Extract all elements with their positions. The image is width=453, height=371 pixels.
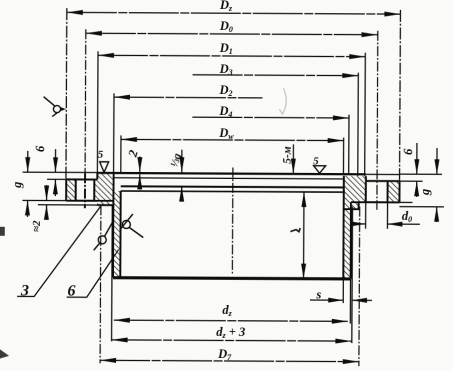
finish circle on bore (left) — [122, 220, 130, 228]
dz+3 dim arrows — [112, 337, 128, 342]
s arrows — [328, 298, 343, 303]
l arrows — [301, 192, 306, 207]
svg-text:5-м: 5-м — [282, 146, 294, 164]
left ring top edge — [96, 172, 98, 179]
approx2 arrows — [44, 186, 49, 201]
right wall edges — [343, 176, 351, 279]
d0 arrows — [351, 221, 366, 226]
D7 dim arrows — [100, 358, 116, 363]
rim top line thin continuation over right flange — [366, 173, 400, 175]
rim line L4 — [121, 191, 344, 192]
D1 left ext — [96, 51, 99, 172]
svg-text:dz: dz — [222, 303, 232, 318]
D1 right ext — [364, 53, 367, 176]
svg-text:D3: D3 — [219, 62, 233, 77]
svg-text:5: 5 — [98, 149, 104, 161]
dz+3 dim line — [112, 340, 352, 341]
6 dim shafts — [54, 149, 56, 196]
right flange outline — [351, 181, 400, 203]
lower solid ext left (dz+3) — [111, 205, 114, 341]
D4 right ext — [348, 115, 350, 174]
D3 dim line — [193, 74, 359, 77]
1/3g dim arrows — [179, 157, 184, 172]
approx2 dim shafts — [45, 185, 47, 220]
right horiz ext step bottom — [399, 206, 443, 208]
svg-text:3: 3 — [20, 282, 29, 299]
left flange plate hatch (outer of bolt hole) — [66, 179, 76, 200]
svg-text:D4: D4 — [218, 104, 232, 119]
left bolt hole edges — [76, 179, 95, 200]
left raised ring hatch — [97, 172, 113, 205]
D3 right ext — [357, 73, 360, 176]
D2 left ext — [113, 93, 115, 172]
right horiz ext rim top — [400, 173, 442, 175]
svg-text:g: g — [10, 182, 24, 189]
d0 dim line — [354, 223, 420, 225]
Dw arrows — [121, 137, 137, 142]
6 arrows — [53, 157, 58, 172]
leader line for item 6 — [67, 249, 119, 297]
wall edge ext below floor right (s) — [343, 279, 350, 324]
D4 dim line — [192, 116, 349, 119]
g dim shafts — [26, 151, 28, 217]
D0 dim line — [86, 33, 378, 35]
left horiz ext seat — [47, 178, 76, 180]
5mm arrow — [291, 159, 296, 174]
rim mid partial line segments — [114, 178, 344, 179]
2 dim shaft — [139, 157, 141, 190]
rim line L3 — [121, 186, 344, 187]
right lower dash-dot extension (D7) — [358, 207, 361, 366]
rim top line 1 — [97, 173, 365, 174]
d0 ext lines below flange — [366, 202, 388, 229]
lower solid ext right (dz+3) — [351, 207, 354, 343]
Dw right ext — [342, 138, 344, 174]
svg-text:s: s — [315, 287, 321, 301]
left horiz ext flange bottom — [22, 199, 66, 201]
6 right arrows — [414, 159, 419, 174]
scan smudge bottom-left corner — [0, 349, 9, 359]
D4 right arrow — [333, 115, 349, 120]
Dw left ext — [120, 135, 122, 171]
left wall edges — [113, 173, 121, 278]
triangle on left flange — [100, 162, 109, 173]
right step outline — [344, 202, 359, 209]
g right arrows — [434, 159, 439, 174]
D3 right arrow — [342, 73, 358, 78]
scan smudge left edge — [0, 227, 5, 236]
leader line for item 3 — [17, 206, 100, 297]
right bolt hole edges — [366, 181, 388, 202]
right horiz ext flange bottom — [399, 201, 412, 203]
g dim shafts (right) — [436, 148, 438, 222]
left ring bottom step — [97, 204, 113, 206]
drum bottom edge (floor line) — [113, 278, 350, 279]
right drum wall hatch — [343, 176, 351, 279]
svg-text:≈2: ≈2 — [31, 220, 43, 232]
svg-text:6: 6 — [401, 148, 415, 155]
svg-text:D1: D1 — [219, 41, 233, 56]
right step block hatch — [344, 202, 359, 209]
l dim shaft — [303, 192, 305, 279]
left flange plate hatch sliver (inner of bolt hole) — [94, 179, 97, 200]
left lower dash-dot extension (D7) — [99, 205, 102, 363]
Dw dim line — [121, 139, 344, 140]
left horiz ext rim top — [23, 171, 98, 173]
left flange outline — [66, 179, 113, 201]
D1 dim line — [98, 55, 365, 56]
dz dim line — [114, 320, 348, 321]
right ring top edge — [365, 176, 367, 181]
g arrows — [25, 157, 30, 172]
svg-text:5: 5 — [313, 155, 319, 167]
svg-text:d0: d0 — [402, 209, 412, 224]
right horiz ext seat — [400, 180, 423, 182]
triangle on rim right — [314, 166, 326, 174]
svg-text:D0: D0 — [219, 19, 233, 34]
label l (cursive, flattened as in scan) — [290, 228, 300, 232]
svg-text:D2: D2 — [218, 83, 232, 98]
svg-text:Dz: Dz — [219, 0, 233, 13]
right raised ring hatch — [351, 176, 366, 202]
2 dim arrows — [137, 157, 142, 172]
svg-text:dz + 3: dz + 3 — [216, 325, 245, 340]
svg-text:6: 6 — [67, 283, 75, 300]
D2 left arrow — [114, 95, 130, 100]
left drum wall hatch — [113, 191, 121, 278]
left bolt axis — [84, 29, 87, 173]
Dz right ext — [399, 10, 402, 181]
svg-text:2: 2 — [125, 149, 140, 160]
D1 arrows — [98, 53, 114, 58]
D2 dim line — [114, 96, 262, 99]
Dz dim line — [67, 12, 401, 14]
svg-text:g: g — [418, 189, 432, 196]
svg-text:6: 6 — [33, 145, 47, 152]
1/3g dim shaft — [181, 150, 183, 202]
D7 dim line — [100, 360, 359, 361]
6 dim shafts (right) — [416, 143, 418, 197]
right flange plate hatch (inner of hole = none; outer) — [388, 181, 400, 202]
svg-text:D7: D7 — [217, 347, 232, 362]
s dim line — [310, 299, 372, 301]
D0 arrows — [86, 31, 102, 36]
Dz left ext / flange edge up — [65, 8, 68, 179]
svg-text:Dw: Dw — [218, 126, 234, 141]
5mm shaft — [292, 144, 294, 173]
left horiz ext step bottom — [38, 204, 113, 206]
drawing vertical centerline — [231, 168, 234, 274]
top-left general finish symbol — [53, 105, 60, 112]
finish circle on wall outer (left) — [98, 236, 106, 244]
right bolt axis — [376, 31, 379, 210]
dz dim arrows — [114, 318, 130, 323]
Dz arrows — [67, 10, 83, 15]
